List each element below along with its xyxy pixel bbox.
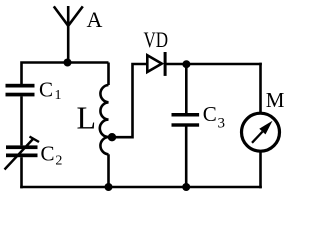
svg-text:A: A	[87, 7, 103, 32]
capacitor C1 plates	[6, 84, 35, 97]
svg-text:L: L	[77, 100, 97, 136]
svg-text:2: 2	[55, 153, 62, 168]
svg-text:C: C	[41, 142, 55, 166]
bottom rail wire	[20, 186, 262, 189]
svg-text:VD: VD	[144, 27, 169, 52]
wire C3 top lead	[185, 64, 188, 113]
wire tap from coil to diode	[112, 64, 147, 137]
junction dot bottom rail at C3	[182, 183, 190, 191]
svg-text:M: M	[266, 88, 285, 112]
meter M circle	[242, 113, 280, 151]
antenna prongs	[54, 6, 83, 25]
diode VD cathode bar	[164, 52, 167, 76]
capacitor C2 trimmer arrow	[5, 137, 40, 170]
wire C3 bottom lead	[185, 127, 188, 188]
meter needle shaft	[252, 132, 263, 143]
wire diode cathode to right rail	[165, 63, 262, 66]
wire meter to bottom rail	[259, 151, 262, 188]
capacitor C2 plates	[6, 145, 38, 157]
wire left rail top + antenna-row top wire	[22, 63, 109, 86]
junction dot antenna node	[64, 59, 72, 67]
diode VD triangle	[147, 55, 162, 72]
inductor L top lead	[107, 63, 110, 86]
svg-text:3: 3	[218, 116, 226, 132]
antenna mast	[67, 6, 70, 63]
wire C2 to bottom rail	[20, 157, 23, 188]
inductor L coil	[100, 85, 109, 154]
svg-text:C: C	[203, 102, 217, 126]
svg-text:1: 1	[55, 88, 62, 103]
junction dot diode output node	[182, 60, 190, 68]
meter needle arrowhead	[259, 121, 272, 135]
right rail down to meter	[259, 63, 262, 114]
junction dot coil tap	[108, 133, 116, 141]
capacitor C3 plates	[172, 113, 200, 127]
svg-text:C: C	[39, 78, 53, 102]
inductor L bottom lead	[107, 154, 110, 187]
wire between C1 and C2	[20, 96, 23, 145]
junction dot bottom rail at L	[105, 183, 113, 191]
